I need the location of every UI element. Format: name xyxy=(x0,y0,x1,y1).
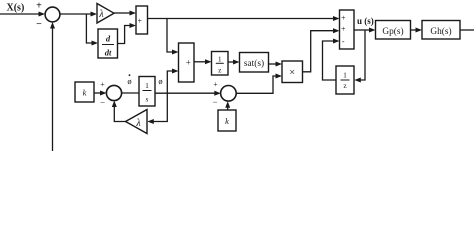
integrator block I1 1/s xyxy=(139,77,155,107)
node phi label xyxy=(158,76,162,86)
svg-text:sat(s): sat(s) xyxy=(244,58,264,69)
svg-text:Gh(s): Gh(s) xyxy=(430,26,451,37)
wire SB output u(s) to Gp(s) with branch down xyxy=(354,28,376,83)
plus sign at S2 xyxy=(100,80,105,89)
gain triangle T2 lambda xyxy=(126,110,148,134)
summing junction S3 xyxy=(221,86,237,102)
wire phi branch down to gain T2 input xyxy=(147,93,167,124)
unit delay block Z2 1/z xyxy=(336,66,354,94)
svg-text:k: k xyxy=(83,88,87,98)
svg-text:s: s xyxy=(146,95,149,104)
wire T2 to summer S2 minus input xyxy=(112,101,126,122)
wire S2 to integrator I1 xyxy=(121,92,139,94)
wire k2 up to summer S3 xyxy=(225,101,230,110)
svg-text:−: − xyxy=(36,19,42,30)
svg-text:+: + xyxy=(186,58,191,68)
wire phi rail branch up to adder A2 bottom input xyxy=(167,69,178,94)
summing junction S2 xyxy=(106,85,121,100)
wire Gh(s) output to right edge xyxy=(460,29,474,31)
svg-text:+: + xyxy=(138,17,143,26)
wire rail branch down to adder A2 top input xyxy=(167,19,179,55)
node phi-dot label xyxy=(127,74,131,86)
wire Z1 to saturation block xyxy=(228,60,240,65)
wire M1 to sum box SB middle input xyxy=(303,28,340,72)
plant block Gp(s) xyxy=(376,21,411,40)
svg-text:−: − xyxy=(212,97,217,107)
adder block A2 xyxy=(179,43,195,82)
unit delay block Z1 1/z xyxy=(212,52,229,76)
svg-text:dt: dt xyxy=(105,48,112,58)
svg-text:+: + xyxy=(341,24,346,33)
wire k1 to summer S2 xyxy=(94,91,107,96)
svg-text:×: × xyxy=(289,68,295,79)
svg-text:1: 1 xyxy=(145,81,149,90)
wire sat(s) to multiplier M1 xyxy=(269,62,283,67)
svg-text:u (s): u (s) xyxy=(357,16,374,26)
svg-text:k: k xyxy=(225,116,229,126)
plus sign at S1 xyxy=(36,1,42,12)
svg-text:ø: ø xyxy=(158,76,162,86)
wire A2 to unit delay Z1 xyxy=(194,59,212,64)
gain block k1 xyxy=(75,82,94,102)
wire S1 to gain T1 with branch xyxy=(60,12,98,46)
svg-text:λ: λ xyxy=(98,9,104,20)
wire input X(s) to summer S1 xyxy=(0,12,45,17)
svg-text:+: + xyxy=(36,1,42,12)
wire Gp(s) to Gh(s) xyxy=(411,28,423,33)
svg-text:+: + xyxy=(341,13,346,22)
svg-text:+: + xyxy=(100,80,105,89)
svg-text:X(s): X(s) xyxy=(7,3,25,14)
svg-text:z: z xyxy=(343,81,347,90)
minus sign at S1 xyxy=(36,19,42,30)
svg-text:d: d xyxy=(106,34,111,44)
gain block k2 xyxy=(218,110,236,131)
svg-text:Gp(s): Gp(s) xyxy=(382,26,403,37)
svg-text:1: 1 xyxy=(218,55,222,64)
wire summer S3 to multiplier M1 bottom input xyxy=(236,74,282,94)
block Gh(s) xyxy=(422,21,460,40)
svg-text:ø: ø xyxy=(127,76,131,86)
svg-text:λ: λ xyxy=(135,118,141,129)
wire T1 to adder A1 xyxy=(114,11,136,16)
wire feedback bottom into S1 xyxy=(50,22,55,151)
wire SB bottom input from unit delay Z2 xyxy=(323,39,340,81)
svg-text:−: − xyxy=(100,98,105,108)
derivative block d/dt xyxy=(98,29,118,58)
saturation block sat(s) xyxy=(240,53,269,73)
minus sign at S2 xyxy=(100,98,105,108)
minus sign at S3 xyxy=(212,97,217,107)
wire phi rail I1 to summer S3 xyxy=(155,91,221,96)
summing junction S1 xyxy=(45,7,60,22)
svg-text:z: z xyxy=(218,66,222,75)
node X(s) input label xyxy=(7,3,25,14)
wire main rail A1 to sum box SB xyxy=(148,16,340,21)
svg-text:+: + xyxy=(213,80,218,89)
node u(s) label xyxy=(357,16,374,26)
wire d/dt to adder A1 xyxy=(118,23,137,44)
svg-text:-: - xyxy=(342,37,345,46)
sum box SB (+ + -) xyxy=(340,10,355,49)
gain triangle T1 lambda xyxy=(97,4,114,24)
multiplier block M1 xyxy=(282,61,303,83)
svg-text:1: 1 xyxy=(343,71,347,80)
plus sign at S3 xyxy=(213,80,218,89)
adder block A1 xyxy=(136,6,148,34)
